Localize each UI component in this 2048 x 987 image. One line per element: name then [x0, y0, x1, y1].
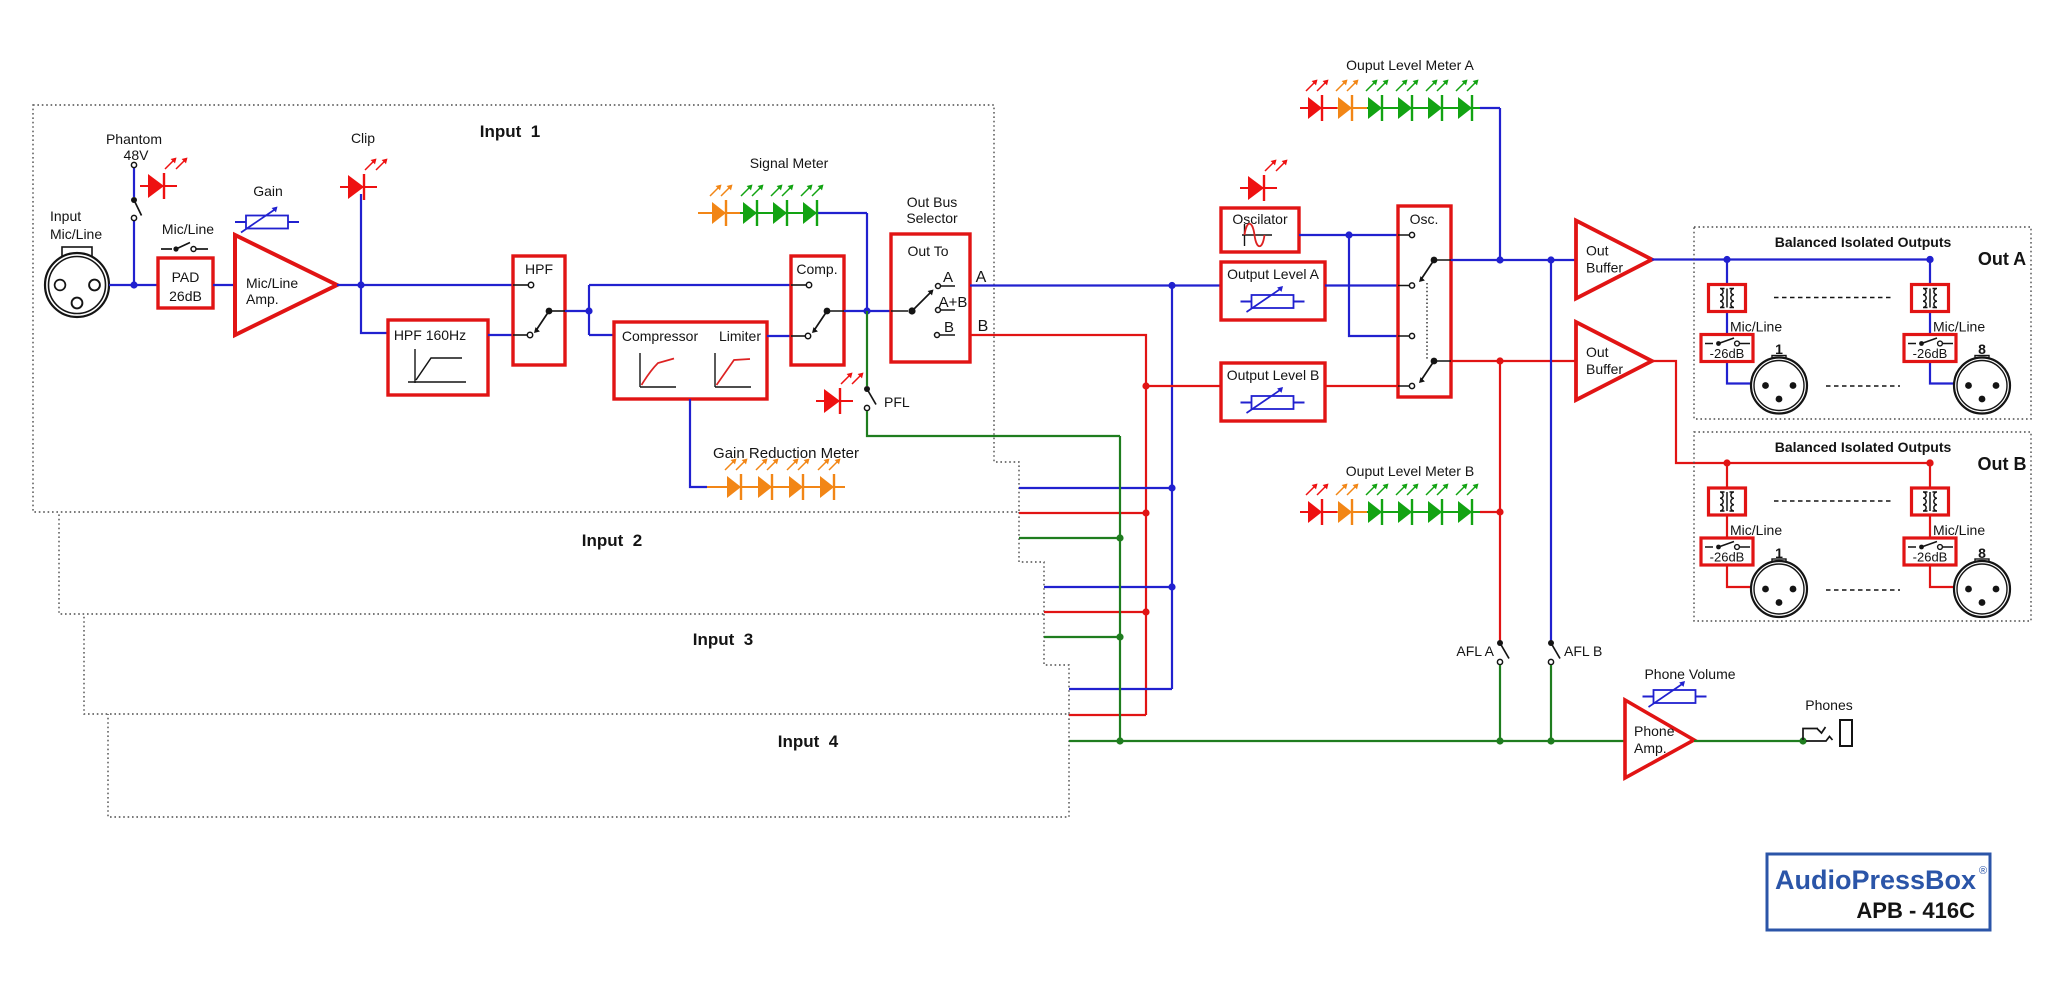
switch PFL [864, 386, 870, 392]
svg-text:Amp.: Amp. [246, 291, 279, 307]
svg-text:Osc.: Osc. [1410, 211, 1439, 227]
svg-text:Mic/Line: Mic/Line [50, 226, 102, 242]
node junction signal meter / PFL tap [863, 307, 870, 314]
wire input2 B [1019, 512, 1146, 514]
wire bus A vertical [1171, 286, 1173, 690]
svg-text:AFL B: AFL B [1564, 643, 1602, 659]
svg-text:PAD: PAD [172, 269, 200, 285]
node junction buffer B out right [1926, 459, 1933, 466]
wire osc to lower contact [1349, 235, 1398, 336]
wire Comp to selector [844, 310, 891, 312]
svg-text:Output Level A: Output Level A [1227, 266, 1320, 282]
svg-text:8: 8 [1978, 545, 1986, 561]
svg-text:48V: 48V [124, 147, 150, 163]
svg-text:A+B: A+B [939, 294, 968, 311]
transformer output column A8 [1904, 256, 2010, 414]
wire input2 A [1019, 487, 1172, 489]
transformer output column A1 [1701, 256, 1807, 414]
wire phone amp to jack [1694, 740, 1803, 742]
wire PAD to amp [213, 284, 235, 286]
svg-text:Out B: Out B [1978, 454, 2027, 474]
wire into compressor [589, 334, 614, 336]
svg-text:B: B [978, 318, 989, 335]
switch Mic/Line pad bypass [161, 248, 172, 250]
wire AFL B drop [1550, 260, 1552, 643]
wire AFL B to phones bus [1550, 665, 1552, 741]
wire buffer B out to Out B box [1652, 361, 1930, 463]
input 3 channel box [84, 614, 1069, 714]
wire Output Level B out [1325, 385, 1398, 387]
svg-text:HPF: HPF [525, 261, 553, 277]
switch AFL A [1497, 640, 1503, 646]
svg-text:Input 4: Input 4 [778, 732, 839, 751]
connector Phones jack [1803, 727, 1826, 740]
svg-text:Out A: Out A [1978, 249, 2026, 269]
wire meter A drop [1499, 108, 1501, 260]
node junction meter B / AFL A tap [1496, 357, 1503, 364]
transformer output column B1 [1701, 459, 1807, 617]
wire selector B out to B bus [970, 335, 1146, 715]
wire dashed continuation marks Out B [1774, 500, 1894, 502]
svg-text:Input 2: Input 2 [582, 531, 642, 550]
op-amp Phone Amp [1625, 700, 1694, 778]
node Out B dashed box [1694, 432, 2031, 621]
svg-text:Amp.: Amp. [1634, 740, 1667, 756]
wire PFL drop from junction [866, 311, 868, 386]
connector XLR input J1 [45, 247, 109, 317]
wire compressor to Comp switch [767, 335, 791, 337]
op-amp Mic/Line Amp [235, 235, 337, 335]
node junction buffer A out right [1926, 256, 1933, 263]
svg-text:Input: Input [50, 208, 81, 224]
wire XLR to PAD [109, 284, 158, 286]
svg-text:Oscilator: Oscilator [1232, 211, 1288, 227]
wire clip LED drop [360, 194, 362, 285]
input 4 channel box [108, 714, 1069, 817]
node AudioPressBox logo [1767, 854, 1990, 930]
wire PFL bus vertical [1119, 436, 1121, 741]
svg-text:Selector: Selector [906, 210, 958, 226]
svg-text:Signal Meter: Signal Meter [750, 155, 829, 171]
wire input3 A [1044, 586, 1172, 588]
wire phantom feed lower [133, 221, 135, 285]
wire dashed continuation marks Out A [1774, 297, 1894, 299]
potentiometer Gain [235, 207, 299, 233]
potentiometer Output Level A box [1221, 262, 1325, 320]
svg-text:APB - 416C: APB - 416C [1856, 898, 1975, 923]
LED oscillator indicator [1240, 160, 1288, 202]
meter Signal Meter chain [698, 212, 740, 214]
svg-text:Gain Reduction Meter: Gain Reduction Meter [713, 445, 859, 462]
svg-text:1: 1 [1775, 341, 1783, 357]
op-amp Out Buffer A [1576, 221, 1652, 299]
meter Ouput Level Meter A chain [1300, 107, 1337, 109]
node junction HPF out [585, 307, 592, 314]
wire input4 B [1069, 714, 1146, 716]
wire phones bus [1120, 740, 1625, 742]
compressor Compressor/Limiter block [614, 322, 767, 399]
wire Output Level B in [1146, 385, 1221, 387]
svg-text:26dB: 26dB [169, 288, 202, 304]
svg-text:1: 1 [1775, 545, 1783, 561]
switch Osc. select box [1398, 206, 1451, 397]
svg-text:8: 8 [1978, 341, 1986, 357]
svg-text:Limiter: Limiter [719, 328, 761, 344]
LED PFL indicator [816, 373, 864, 415]
svg-text:Mic/Line: Mic/Line [162, 221, 214, 237]
svg-text:®: ® [1979, 865, 1987, 877]
svg-text:B: B [944, 319, 954, 336]
svg-text:AudioPressBox: AudioPressBox [1775, 865, 1976, 895]
svg-text:Ouput Level Meter B: Ouput Level Meter B [1346, 463, 1474, 479]
svg-text:HPF 160Hz: HPF 160Hz [394, 327, 466, 343]
meter Ouput Level Meter B chain [1300, 511, 1337, 513]
op-amp Out Buffer B [1576, 322, 1652, 400]
LED clip indicator [340, 159, 388, 201]
svg-text:Out To: Out To [908, 243, 949, 259]
wire amp to HPF 160Hz filter [361, 285, 388, 333]
svg-text:Clip: Clip [351, 130, 375, 146]
node junction AFL B tap [1547, 256, 1554, 263]
wire signal meter drop [866, 213, 868, 311]
wire HPF common to junction [565, 310, 589, 312]
svg-text:Balanced Isolated Outputs: Balanced Isolated Outputs [1775, 439, 1952, 455]
wire input4 A [1069, 688, 1172, 690]
wire osc common A to buffer A [1451, 259, 1576, 261]
svg-text:Phone Volume: Phone Volume [1644, 666, 1735, 682]
wire oscillator out [1299, 234, 1398, 236]
svg-text:AFL A: AFL A [1456, 643, 1494, 659]
svg-text:Gain: Gain [253, 183, 283, 199]
node junction osc split [1345, 231, 1352, 238]
LED phantom indicator [140, 158, 188, 200]
node junction bus A top [1168, 282, 1175, 289]
svg-text:Mic/Line: Mic/Line [246, 275, 298, 291]
wire Output Level A out [1325, 284, 1398, 286]
svg-text:A: A [943, 269, 953, 286]
switch AFL B [1548, 640, 1554, 646]
svg-text:A: A [976, 269, 987, 286]
svg-text:Phantom: Phantom [106, 131, 162, 147]
switch HPF select box [513, 256, 565, 365]
svg-text:Comp.: Comp. [796, 261, 837, 277]
node junction phantom tap [130, 281, 137, 288]
wire meter B / AFL A drop [1499, 361, 1501, 643]
svg-text:Compressor: Compressor [622, 328, 699, 344]
svg-text:Phone: Phone [1634, 723, 1675, 739]
filter HPF 160Hz [388, 320, 488, 395]
switch phantom 48V [131, 162, 136, 167]
node junction meter A tap [1496, 256, 1503, 263]
wire input3 B [1044, 611, 1146, 613]
switch Comp. select box [791, 256, 844, 365]
svg-text:Phones: Phones [1805, 697, 1852, 713]
svg-text:Out Bus: Out Bus [907, 194, 958, 210]
node junction clip tap [357, 281, 364, 288]
svg-text:Ouput Level Meter A: Ouput Level Meter A [1346, 57, 1474, 73]
wire selector A out to Output Level A [970, 284, 1221, 286]
wire input2 PFL [1019, 537, 1120, 539]
wire amp output to HPF switch [337, 284, 513, 286]
potentiometer Phone Volume [1643, 681, 1707, 707]
input 1 channel box [33, 105, 1019, 512]
wire PFL to green bus [867, 411, 1120, 436]
meter Gain Reduction Meter chain [707, 486, 845, 488]
wire AFL A to phones bus [1499, 665, 1501, 741]
svg-text:Balanced Isolated Outputs: Balanced Isolated Outputs [1775, 234, 1952, 250]
wire HPF 160Hz to HPF switch [488, 334, 513, 336]
wire phantom feed upper [133, 168, 135, 197]
svg-text:Output Level B: Output Level B [1227, 367, 1320, 383]
node Out A dashed box [1694, 227, 2031, 419]
attenuator PAD 26dB [158, 258, 213, 308]
svg-text:PFL: PFL [884, 394, 910, 410]
wire buffer A out to Out A box [1652, 258, 1930, 260]
wire input3 PFL [1044, 636, 1120, 638]
svg-text:Input 3: Input 3 [693, 630, 753, 649]
input 2 channel box [59, 512, 1044, 614]
wire junction riser [588, 285, 590, 335]
oscillator Oscilator box [1221, 208, 1299, 252]
wire bypass over compressor [589, 284, 791, 286]
wire input4 PFL joins phones bus [1069, 740, 1120, 742]
wire osc common B to buffer B [1451, 360, 1576, 362]
svg-text:Input 1: Input 1 [480, 122, 540, 141]
wire compressor to gain reduction meter [690, 399, 707, 487]
transformer output column B8 [1904, 459, 2010, 617]
potentiometer Output Level B box [1221, 363, 1325, 421]
